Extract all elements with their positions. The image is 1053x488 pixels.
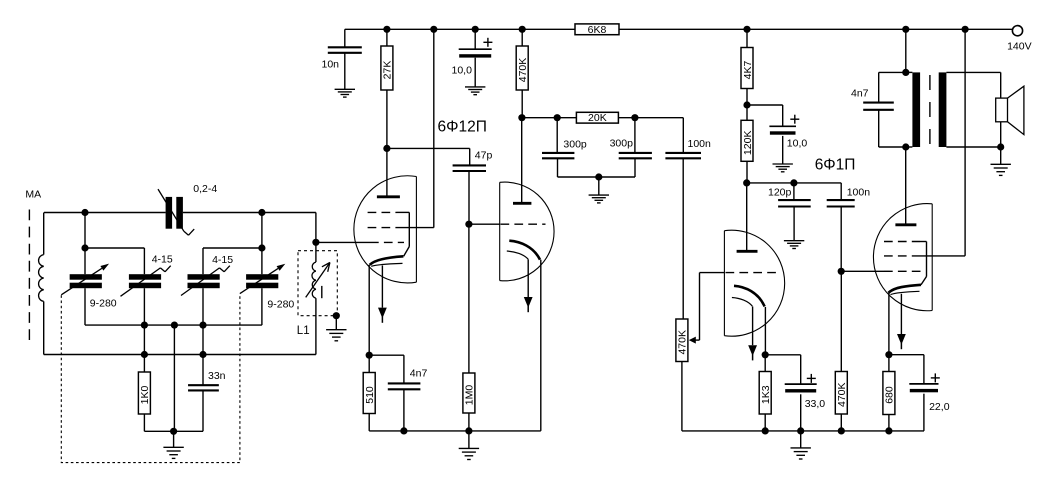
resistor 470K anode load bbox=[521, 29, 523, 46]
svg-text:4-15: 4-15 bbox=[212, 254, 233, 266]
svg-text:120p: 120p bbox=[768, 186, 792, 198]
tube V2b pentode envelope bbox=[873, 204, 932, 311]
node cathode V1a bbox=[366, 352, 373, 359]
svg-text:10,0: 10,0 bbox=[787, 137, 808, 149]
node transformer top bbox=[902, 69, 909, 76]
wire anode V1a to 47p bbox=[387, 147, 470, 149]
node cathode V2a bbox=[762, 351, 769, 358]
tube V2a triode envelope bbox=[724, 230, 784, 336]
wire 100n to grid V2b bbox=[840, 207, 842, 272]
svg-text:27K: 27K bbox=[382, 61, 394, 80]
node rail-g2 output bbox=[962, 26, 969, 33]
tube V2a grid bbox=[700, 272, 725, 274]
svg-text:1K0: 1K0 bbox=[139, 386, 151, 405]
node 300p ground bbox=[595, 173, 602, 180]
node 470K-anode V1b bbox=[518, 114, 525, 121]
wire varcap row to ground node bbox=[173, 325, 175, 431]
ganged tuning dashed outline bbox=[61, 294, 240, 463]
svg-text:300p: 300p bbox=[563, 139, 587, 151]
antenna boundary dashed line bbox=[28, 210, 30, 346]
transformer core bbox=[929, 75, 931, 145]
resistor 1K3 bbox=[764, 355, 766, 372]
svg-text:10,0: 10,0 bbox=[452, 65, 473, 77]
heater arrow V1b bbox=[527, 259, 529, 297]
resistor 4K7 bbox=[746, 29, 748, 47]
tube V2b heater bbox=[891, 291, 920, 294]
capacitor 22,0 electrolytic bbox=[909, 383, 938, 385]
wire secondary bottom to speaker bbox=[946, 146, 1000, 148]
capacitor 4n7 cathode bbox=[388, 382, 421, 384]
capacitor 10n bbox=[328, 46, 362, 48]
resistor 6K8 bbox=[575, 24, 619, 35]
wire bottom tie V1 bbox=[369, 430, 469, 432]
wire to 10uF#2 bbox=[747, 104, 783, 106]
wire tank right riser bbox=[261, 213, 263, 275]
L1 shield dashed box bbox=[298, 251, 337, 316]
wire rail to transformer bbox=[905, 29, 907, 72]
wire varcap bottom leads bbox=[84, 288, 86, 325]
wire secondary top to speaker bbox=[946, 71, 1000, 73]
svg-text:0,2-4: 0,2-4 bbox=[193, 183, 217, 195]
node lower rail 1K0 bbox=[141, 351, 148, 358]
node rail-470K bbox=[519, 26, 526, 33]
node varcap bottom 3 bbox=[199, 322, 206, 329]
tube V2b grid3 bbox=[884, 241, 920, 243]
transformer secondary bbox=[939, 72, 947, 147]
resistor 510 bbox=[368, 355, 370, 372]
tube V1b triode envelope bbox=[500, 182, 554, 281]
resistor 1M0 bbox=[468, 224, 470, 373]
capacitor 10,0 electrolytic bbox=[459, 48, 492, 50]
ground L1 shield bbox=[335, 316, 337, 330]
svg-text:4-15: 4-15 bbox=[152, 253, 173, 265]
tube V1a heater bbox=[371, 263, 402, 266]
node speaker ground bbox=[997, 143, 1004, 150]
heater arrow V2a bbox=[752, 307, 754, 346]
svg-text:100n: 100n bbox=[688, 138, 712, 150]
wire 47p to grid V1b bbox=[468, 171, 470, 224]
resistor 20K bbox=[576, 112, 618, 123]
wire varcap bottom row bbox=[85, 324, 262, 326]
svg-text:6Φ12Π: 6Φ12Π bbox=[438, 118, 487, 135]
ground tank bbox=[173, 431, 175, 447]
svg-text:9-280: 9-280 bbox=[90, 298, 117, 310]
tube V1a cathode bbox=[370, 256, 404, 265]
wire tank top rail bbox=[44, 212, 166, 214]
tube V2a heater bbox=[732, 298, 753, 307]
svg-text:4K7: 4K7 bbox=[742, 61, 754, 80]
tube V2b anode bbox=[895, 223, 916, 226]
svg-text:470K: 470K bbox=[836, 382, 848, 407]
node tank topright bbox=[258, 209, 265, 216]
capacitor 300p first bbox=[556, 118, 558, 153]
node ground 1M0 bbox=[465, 427, 472, 434]
ground 10uF#2 bbox=[782, 136, 784, 164]
node anode V2a bbox=[743, 179, 750, 186]
heater arrow V2b bbox=[900, 294, 902, 334]
variable capacitor 9-280 first bbox=[70, 274, 102, 280]
tube V1a grid1 bbox=[316, 241, 370, 243]
heater arrow V1a bbox=[381, 266, 383, 308]
wire 20K right bbox=[618, 117, 683, 119]
node rail-4K7 bbox=[743, 26, 750, 33]
wire 300p bottoms tie bbox=[558, 176, 636, 178]
wire rail to 10uF bbox=[474, 29, 476, 49]
capacitor 4n7 primary bbox=[879, 71, 906, 73]
ground 10n bbox=[344, 53, 346, 90]
tube V2b grid2 screen bbox=[884, 255, 920, 257]
resistor 470K grid leak bbox=[840, 271, 842, 371]
node 120p bbox=[790, 179, 797, 186]
resistor 680 bbox=[888, 355, 890, 372]
svg-text:100n: 100n bbox=[847, 186, 871, 198]
svg-text:9-280: 9-280 bbox=[267, 298, 294, 310]
resistor 27K bbox=[386, 29, 388, 46]
wire anode row V2a bbox=[747, 182, 842, 184]
node rail-g2 riser bbox=[430, 26, 437, 33]
speaker bbox=[996, 98, 1008, 122]
tube V1b anode bbox=[513, 202, 531, 205]
node rail-27K bbox=[383, 26, 390, 33]
resistor 1K0 bbox=[138, 372, 150, 414]
tube V2b cathode bbox=[888, 285, 921, 293]
wire cathode V1b to ground rail bbox=[540, 260, 542, 431]
node varcap bottom 1 bbox=[141, 322, 148, 329]
tube V1a 6Ф12П pentode envelope bbox=[354, 176, 417, 283]
wire tank top to L1/grid bbox=[315, 213, 317, 243]
tube V2b grid1 bbox=[841, 270, 884, 272]
node ground right rail bbox=[797, 427, 804, 434]
wire g2 output riser to rail bbox=[964, 29, 966, 256]
node transformer bottom bbox=[902, 143, 909, 150]
tube V1a grid3 bbox=[368, 211, 397, 213]
node rail-transformer bbox=[902, 26, 909, 33]
node tank topleft bbox=[81, 209, 88, 216]
tube V1a anode bbox=[377, 195, 400, 198]
ground right rail bbox=[800, 431, 802, 448]
node L1 grid bbox=[312, 239, 319, 246]
variable capacitor 4-15 second bbox=[188, 274, 220, 280]
ground V1 bottom bbox=[468, 431, 470, 449]
node grid V1b bbox=[465, 221, 472, 228]
svg-text:1M0: 1M0 bbox=[464, 385, 476, 406]
ground 10uF bbox=[474, 58, 476, 87]
svg-text:4n7: 4n7 bbox=[851, 87, 869, 99]
capacitor 47p bbox=[453, 164, 486, 166]
capacitor 33n bbox=[188, 384, 219, 386]
svg-text:6K8: 6K8 bbox=[588, 24, 607, 36]
svg-text:33,0: 33,0 bbox=[805, 398, 826, 410]
L1 adjust arrow bbox=[306, 263, 330, 298]
node L1 shield ground bbox=[333, 312, 340, 319]
node rail-10uF bbox=[472, 26, 479, 33]
node 4n7 bottom bbox=[400, 427, 407, 434]
wire ground rail right section bbox=[682, 430, 924, 432]
svg-text:20K: 20K bbox=[588, 112, 607, 124]
wire varcap top tie left bbox=[85, 247, 144, 249]
svg-text:4n7: 4n7 bbox=[410, 368, 428, 380]
terminal 140V bbox=[1012, 26, 1022, 36]
wire cathode to 22uF bbox=[889, 354, 924, 356]
capacitor 300p second bbox=[634, 118, 636, 153]
pot wiper arrow bbox=[699, 273, 701, 341]
svg-text:470K: 470K bbox=[677, 330, 689, 355]
svg-text:6Φ1Π: 6Φ1Π bbox=[815, 157, 856, 174]
node 680 bottom bbox=[885, 427, 892, 434]
svg-text:47p: 47p bbox=[475, 150, 493, 162]
capacitor 10,0 electrolytic second bbox=[769, 125, 796, 127]
svg-text:33n: 33n bbox=[208, 370, 226, 382]
variable capacitor 4-15 first bbox=[129, 274, 161, 280]
node varcap row right bbox=[258, 244, 265, 251]
wire 100n to potentiometer bbox=[682, 158, 684, 319]
node anode V1a bbox=[383, 145, 390, 152]
variable capacitor 9-280 second bbox=[246, 274, 278, 280]
wire cathode V1a down bbox=[368, 265, 370, 355]
ground 300p bbox=[598, 177, 600, 195]
capacitor 120p bbox=[793, 183, 795, 200]
wire cathode to 33uF bbox=[765, 354, 801, 356]
wire cathode V2a bbox=[764, 307, 766, 355]
wire +140V top rail left segment bbox=[345, 28, 575, 30]
wire cathode V2b bbox=[888, 293, 890, 355]
tube V1b cathode bbox=[509, 241, 540, 260]
tube V1b heater bbox=[507, 251, 528, 259]
resistor 120K bbox=[741, 120, 753, 161]
svg-text:1K3: 1K3 bbox=[760, 385, 772, 404]
svg-text:300p: 300p bbox=[610, 138, 634, 150]
node varcap row left bbox=[81, 244, 88, 251]
wire +140V top rail right segment bbox=[619, 28, 1012, 30]
svg-text:680: 680 bbox=[884, 386, 896, 404]
node tank ground bbox=[170, 428, 177, 435]
antenna coil MA bbox=[43, 213, 45, 255]
capacitor 100n coupling bbox=[840, 183, 842, 200]
wire 470K node to 20K bbox=[522, 117, 577, 119]
svg-text:MA: MA bbox=[25, 189, 41, 201]
svg-text:470K: 470K bbox=[517, 58, 529, 83]
wire tank bottom tie bbox=[144, 430, 203, 432]
node 20K left bbox=[554, 114, 561, 121]
wire tank lower rail bbox=[44, 354, 316, 356]
svg-text:140V: 140V bbox=[1007, 40, 1032, 52]
svg-text:22,0: 22,0 bbox=[929, 401, 950, 413]
node varcap bottom 2 bbox=[171, 322, 178, 329]
wire tank left riser bbox=[84, 213, 86, 275]
tube V2a cathode bbox=[734, 286, 765, 307]
node grid V2b bbox=[838, 268, 845, 275]
wire g2 V1a riser to rail bbox=[433, 29, 435, 227]
svg-text:120K: 120K bbox=[742, 131, 754, 156]
ground speaker bbox=[1000, 147, 1002, 164]
wire cathode to 4n7 bbox=[369, 354, 404, 356]
tube V2a anode bbox=[737, 250, 758, 253]
tube V1a grid2 screen bbox=[368, 227, 399, 229]
transformer primary bbox=[906, 71, 913, 73]
node 20K right bbox=[631, 114, 638, 121]
ground 120p bbox=[793, 207, 795, 241]
svg-text:10n: 10n bbox=[322, 59, 340, 71]
wire pot bottom to ground rail bbox=[681, 362, 683, 431]
trimmer capacitor 0,2-4 bbox=[166, 197, 173, 229]
node lower rail 33n bbox=[199, 351, 206, 358]
capacitor 100n volume feed bbox=[682, 118, 684, 153]
svg-text:L1: L1 bbox=[297, 325, 310, 337]
wire varcap top tie right bbox=[203, 247, 262, 249]
tube V1b grid bbox=[469, 223, 500, 225]
node 470K bottom bbox=[838, 427, 845, 434]
capacitor 33,0 electrolytic bbox=[785, 383, 817, 385]
svg-text:510: 510 bbox=[364, 386, 376, 404]
L1 core bar bbox=[321, 286, 323, 298]
node 1K3 bottom bbox=[762, 427, 769, 434]
potentiometer 470K bbox=[676, 319, 688, 362]
node 4K7-120K bbox=[743, 101, 750, 108]
node cathode V2b bbox=[885, 351, 892, 358]
wire rail to 10n bbox=[344, 29, 346, 47]
wire 27K to anode node bbox=[386, 90, 388, 148]
inductor L1 bbox=[315, 242, 317, 262]
